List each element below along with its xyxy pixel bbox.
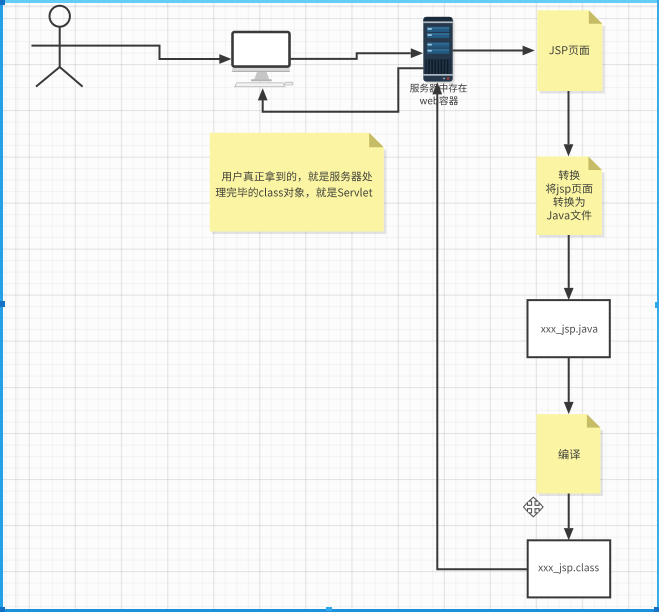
arrowhead: up into server bottom [432,82,442,94]
selection handle: mid-right [655,302,659,308]
wire: xxx_jsp.class back to server [437,94,528,569]
monitor: user computer [232,32,293,87]
selection handle: bottom-right [654,607,659,612]
arrowhead: up into monitor base [258,88,268,100]
arrowhead: into monitor left [219,54,231,64]
arrowhead: into JSP note [523,46,535,56]
note: 转换 将jsp页面 转换为 Java文件 [537,157,605,238]
selection border: top edge [0,0,659,3]
wire: monitor to server (request) [291,53,411,59]
cursor: move (four-way arrow) icon [524,497,544,517]
selection border: right edge [657,0,659,612]
box: xxx_jsp.class [528,540,611,597]
arrowhead: into convert note [564,144,574,156]
arrowhead: into xxx_jsp.java [564,288,574,300]
wire: compile note to xxx_jsp.class [568,494,570,529]
arrowhead: into xxx_jsp.class [564,528,574,540]
note: 编译 [536,414,603,496]
arrowhead: into compile note [564,402,574,414]
wire: JSP note to convert note [568,91,570,144]
selection border: bottom edge [0,609,659,612]
box: xxx_jsp.java [528,300,610,357]
server: web container host [423,17,454,84]
wire: server to monitor (response) [263,68,424,111]
selection border: left edge [0,0,3,612]
selection handle: mid-bottom [326,607,332,611]
note: JSP页面 [537,10,605,93]
selection handle: bottom-left [0,607,5,612]
selection handle: top-left [0,0,5,5]
selection handle: mid-left [0,301,5,307]
actor: user stick figure [32,6,89,87]
arrowhead: into server left [411,48,423,58]
note: 用户真正拿到的就是Servlet说明 [210,133,386,234]
wire: convert note to xxx_jsp.java [568,235,570,288]
wire: actor to monitor [88,46,220,59]
wire: xxx_jsp.java to compile note [568,357,570,402]
wire: server to JSP page note [453,50,523,52]
label: 服务器中存在 web容器 [410,84,467,106]
